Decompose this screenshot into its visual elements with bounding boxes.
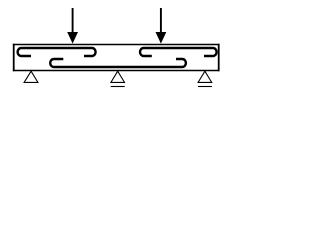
roller base line (right) xyxy=(198,86,212,88)
rebar top-left with 180-degree hooks xyxy=(18,48,96,56)
rebar top-right with 180-degree hooks xyxy=(140,48,217,56)
arrowhead P2 xyxy=(156,32,167,44)
rebar bottom-middle with 180-degree hooks xyxy=(50,59,186,67)
load arrow P2 (right span) xyxy=(160,8,162,33)
load arrow P1 (left span) xyxy=(72,8,74,33)
roller support (middle) xyxy=(111,71,125,82)
pinned support (left) xyxy=(24,71,38,82)
roller base line (middle) xyxy=(111,86,125,88)
beam outline xyxy=(13,45,220,71)
arrowhead P1 xyxy=(67,32,78,44)
roller support (right) xyxy=(198,71,212,82)
